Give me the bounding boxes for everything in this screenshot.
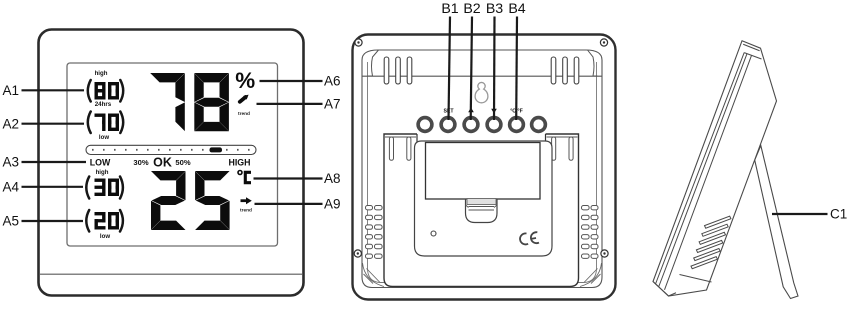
screw bottom-right [601, 250, 608, 257]
side vent slat pair left row 6 [366, 254, 383, 258]
bottom-right corner brace [580, 263, 602, 287]
label C1 [772, 207, 847, 222]
battery compartment [415, 141, 553, 256]
temperature high value (30) [86, 177, 123, 199]
svg-text:A4: A4 [3, 180, 20, 195]
reset hole [431, 231, 436, 236]
side vent slat pair left row 3 [366, 225, 383, 229]
button label up arrow [468, 108, 474, 113]
svg-text:low: low [99, 134, 109, 141]
raised centre panel [384, 134, 579, 287]
side vent slat pair left row 1 [366, 206, 383, 210]
scale label 30% [133, 158, 148, 167]
humidity trend arrow [240, 95, 249, 102]
button label down arrow [491, 109, 497, 114]
label B2 [463, 1, 480, 120]
side vent slat pair right row 4 [582, 235, 599, 239]
label A3 [3, 155, 87, 170]
side vent slat pair left row 2 [366, 215, 383, 219]
side vent slat pair right row 5 [582, 244, 599, 248]
LCD panel [67, 63, 278, 246]
svg-text:OK: OK [153, 155, 172, 169]
side vent slat pair left row 4 [366, 235, 383, 239]
svg-text:24hrs: 24hrs [95, 101, 112, 108]
svg-text:B1: B1 [441, 1, 458, 17]
text high (temperature) [96, 169, 109, 176]
stand leg C1 [755, 146, 798, 299]
temperature low value (20) [86, 210, 123, 232]
screw bottom-left [354, 250, 361, 257]
humidity high value (80) [88, 80, 123, 102]
svg-text:A1: A1 [3, 83, 20, 98]
label B3 [486, 1, 503, 120]
svg-text:A6: A6 [324, 74, 341, 89]
label B1 [441, 1, 458, 120]
svg-text:B2: B2 [463, 1, 480, 17]
scale label 50% [175, 158, 190, 167]
side vent slats [691, 216, 731, 269]
top vent slot right 3 [574, 57, 579, 84]
hanging keyhole [475, 82, 488, 102]
button 6 [532, 118, 546, 132]
svg-text:A2: A2 [3, 116, 20, 131]
right stand hook bracket [546, 134, 578, 163]
side vent slat pair right row 2 [582, 215, 599, 219]
temperature reading 25 [151, 171, 230, 230]
battery door [426, 143, 541, 200]
svg-text:B3: B3 [486, 1, 503, 17]
label A1 [3, 83, 85, 98]
text trend (humidity) [238, 111, 250, 117]
label A6 [260, 74, 341, 89]
top vent slot right 1 [551, 57, 556, 84]
svg-text:A5: A5 [3, 214, 20, 229]
svg-text:HIGH: HIGH [229, 157, 251, 167]
top vent slot left 3 [407, 57, 412, 84]
scale label OK [153, 155, 172, 169]
vent shelf line [363, 75, 602, 77]
button label C/F [510, 109, 523, 115]
text high (humidity) [95, 70, 108, 77]
button 4 [487, 118, 501, 132]
side vent slat pair left row 5 [366, 244, 383, 248]
left stand hook bracket [385, 134, 417, 163]
top vent slot left 1 [384, 57, 389, 84]
text low [99, 134, 109, 141]
button label SET [443, 109, 454, 115]
svg-text:high: high [95, 70, 108, 77]
button 3 [464, 118, 478, 132]
svg-text:low: low [100, 233, 110, 240]
svg-text:B4: B4 [508, 1, 525, 17]
side vent slat pair right row 3 [582, 225, 599, 229]
side vent slat pair right row 1 [582, 206, 599, 210]
front base seam [40, 273, 302, 275]
svg-text:C1: C1 [830, 207, 847, 222]
top vent slot left 2 [396, 57, 401, 84]
svg-text:%: % [235, 68, 255, 93]
battery door latch [466, 199, 498, 223]
label A2 [3, 116, 85, 131]
bottom-left corner brace [363, 263, 385, 287]
button 2 [441, 118, 455, 132]
humidity low value (70) [88, 112, 123, 134]
text trend (temperature) [240, 208, 252, 214]
svg-text:A7: A7 [324, 97, 341, 112]
scale label LOW [90, 157, 111, 167]
screw top-right [600, 39, 607, 46]
screw top-left [355, 39, 362, 46]
svg-text:A9: A9 [324, 197, 341, 212]
side vent slat pair right row 6 [582, 254, 599, 258]
label B4 [508, 1, 525, 120]
svg-text:high: high [96, 169, 109, 176]
CE mark [519, 231, 539, 245]
svg-text:trend: trend [240, 208, 252, 214]
scale label HIGH [229, 157, 251, 167]
label A7 [257, 97, 341, 112]
humidity reading 78 [150, 73, 229, 131]
label A4 [3, 180, 84, 195]
label A5 [3, 214, 84, 229]
svg-text:LOW: LOW [90, 157, 111, 167]
left corner wedge [368, 50, 379, 76]
degree C symbol [238, 171, 251, 183]
svg-text:trend: trend [238, 111, 250, 117]
label A8 [254, 171, 341, 186]
right corner wedge [588, 50, 598, 76]
top vent slot right 2 [563, 57, 568, 84]
back view case [353, 35, 616, 300]
button 1 [418, 118, 432, 132]
svg-text:A3: A3 [3, 155, 20, 170]
button 5 [510, 118, 524, 132]
front view case [39, 30, 304, 296]
svg-text:A8: A8 [324, 171, 341, 186]
svg-text:50%: 50% [175, 158, 190, 167]
percent symbol [235, 68, 255, 93]
comfort scale bar [86, 145, 256, 154]
temperature trend arrow [241, 197, 252, 204]
back inner recess outline [362, 50, 602, 288]
label A9 [255, 197, 341, 212]
text 24hrs [95, 101, 112, 108]
side view body [653, 41, 777, 296]
text low (temperature) [100, 233, 110, 240]
svg-text:30%: 30% [133, 158, 148, 167]
